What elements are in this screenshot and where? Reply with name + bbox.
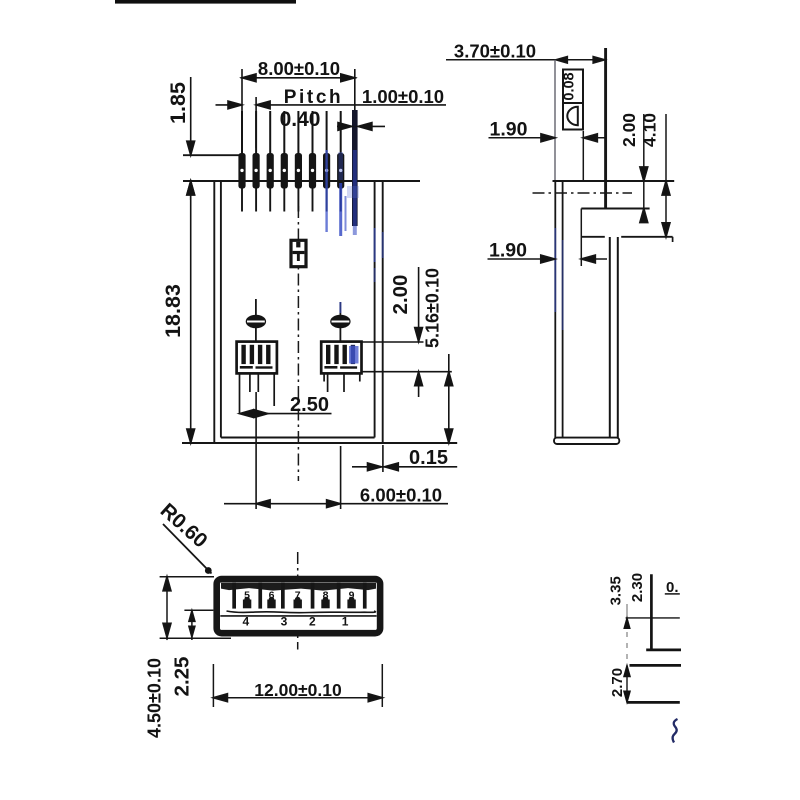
roughness squiggle [673,719,678,743]
svg-text:1.00±0.10: 1.00±0.10 [362,86,444,107]
svg-text:2: 2 [309,615,316,629]
svg-text:18.83: 18.83 [161,284,185,338]
wire step horizontal thick [646,649,681,652]
wire body right outer edge [382,181,384,443]
rivet dot left [246,299,266,342]
pin 9 cell [347,590,355,609]
dim 2.50 [239,394,331,418]
dim 2.00 front [362,267,424,342]
wire leg right edge [617,237,619,438]
dim 4.50±0.10 [145,577,232,738]
block left legs [239,373,241,413]
tongue face line wavy [227,611,376,613]
pin P5 [295,111,302,212]
dim R0.60 leader [156,499,212,574]
wire step bottom end tick [672,237,674,242]
wire vertical thick [650,574,653,650]
dim 1.90 lower [488,240,608,263]
svg-text:2.30: 2.30 [629,573,646,602]
svg-text:4: 4 [243,615,250,629]
wire side body top [553,180,675,182]
dims front view [161,58,457,509]
wire thin horizontal [626,617,680,619]
dim Pitch 1.00±0.10 [216,86,447,148]
pin 8 cell [321,590,329,609]
wire step bottom right seg [621,236,672,238]
dim 2.25 [170,610,213,696]
svg-text:3.35: 3.35 [607,576,624,605]
wire leg left edge [609,237,611,438]
contact block left [237,342,277,446]
pin P8 [337,111,344,212]
svg-text:1.90: 1.90 [489,240,527,262]
wire step line [581,208,649,210]
tolerance frame 0.08 [561,70,583,130]
dim 2.00 side [619,113,648,223]
wire body left outer edge [213,181,215,443]
svg-text:2.00: 2.00 [619,113,639,147]
svg-text:8.00±0.10: 8.00±0.10 [258,58,340,79]
svg-text:2.50: 2.50 [290,394,329,416]
separator bars [232,583,236,609]
dim 5.16±0.10 [362,268,453,443]
blue scan streaks near pins [325,150,327,232]
wire tongue left edge [554,60,556,181]
svg-text:1: 1 [342,615,349,629]
shell outline thick [217,579,380,633]
pin P1 [238,111,245,212]
wire tongue right edge thick [604,48,607,209]
svg-text:0.40: 0.40 [280,108,321,131]
wire body right inner edge [374,181,376,438]
wire inner edge line [582,131,584,181]
dim 18.83 [161,181,195,443]
wire step bottom left seg [581,236,605,238]
pin P6 [309,111,316,212]
svg-text:0.15: 0.15 [409,447,448,469]
wire slab left inner [562,181,564,438]
wire step-top extension line [183,154,243,156]
dim 1.90 upper [489,119,606,142]
node center line front view [297,206,299,481]
wire slab left outer [554,181,556,438]
svg-text:4.50±0.10: 4.50±0.10 [145,658,165,738]
wire body bottom inner [221,437,375,439]
svg-text:5.16±0.10: 5.16±0.10 [423,268,443,348]
svg-text:6.00±0.10: 6.00±0.10 [360,485,442,506]
pins 1-8 top row [238,110,359,236]
node side center line [533,192,633,194]
rivet dot right [330,302,350,342]
dim 0.40 [280,108,385,131]
svg-text:3.70±0.10: 3.70±0.10 [454,41,536,62]
block right legs [323,373,325,381]
wire bottom edge thick [627,701,680,704]
svg-text:4.10: 4.10 [640,113,660,147]
contact slot center [291,240,306,266]
pin P9 highlighted [352,110,358,226]
blue streaks slab [554,228,556,312]
wire body top line [183,180,420,182]
pin P2 [253,111,260,212]
pin 7 cell [294,590,302,609]
dim 1.85 [166,77,195,200]
svg-text:1.85: 1.85 [166,82,190,124]
svg-text:2.00: 2.00 [389,275,412,315]
wire step left wall [580,209,582,267]
wire body bottom outer long [182,442,457,444]
node center line bottom view [297,552,299,650]
pin P7 [323,111,330,212]
dim 6.00±0.10 [224,446,448,509]
pin P3 [267,111,274,212]
wire upper edge thick [630,664,682,667]
svg-text:0.08: 0.08 [561,72,577,100]
dim 3.70±0.10 [446,41,605,64]
dim 4.10 side [640,113,670,237]
dim 8.00±0.10 [241,58,357,148]
wire bottom cap [554,438,619,444]
wire body left inner edge [220,181,222,438]
svg-text:3: 3 [281,615,288,629]
pin 6 cell [267,590,275,609]
contact block right [321,342,361,392]
svg-text:2.25: 2.25 [170,657,193,697]
pin P4 [281,111,288,212]
dim 12.00±0.10 [213,664,382,707]
interior top shade band [221,583,376,591]
pin 5 cell [243,590,251,609]
svg-text:2.70: 2.70 [609,668,626,697]
cropped border artifact top [115,0,296,4]
tongue lower line [220,615,376,617]
dim 0.15 [352,445,457,472]
